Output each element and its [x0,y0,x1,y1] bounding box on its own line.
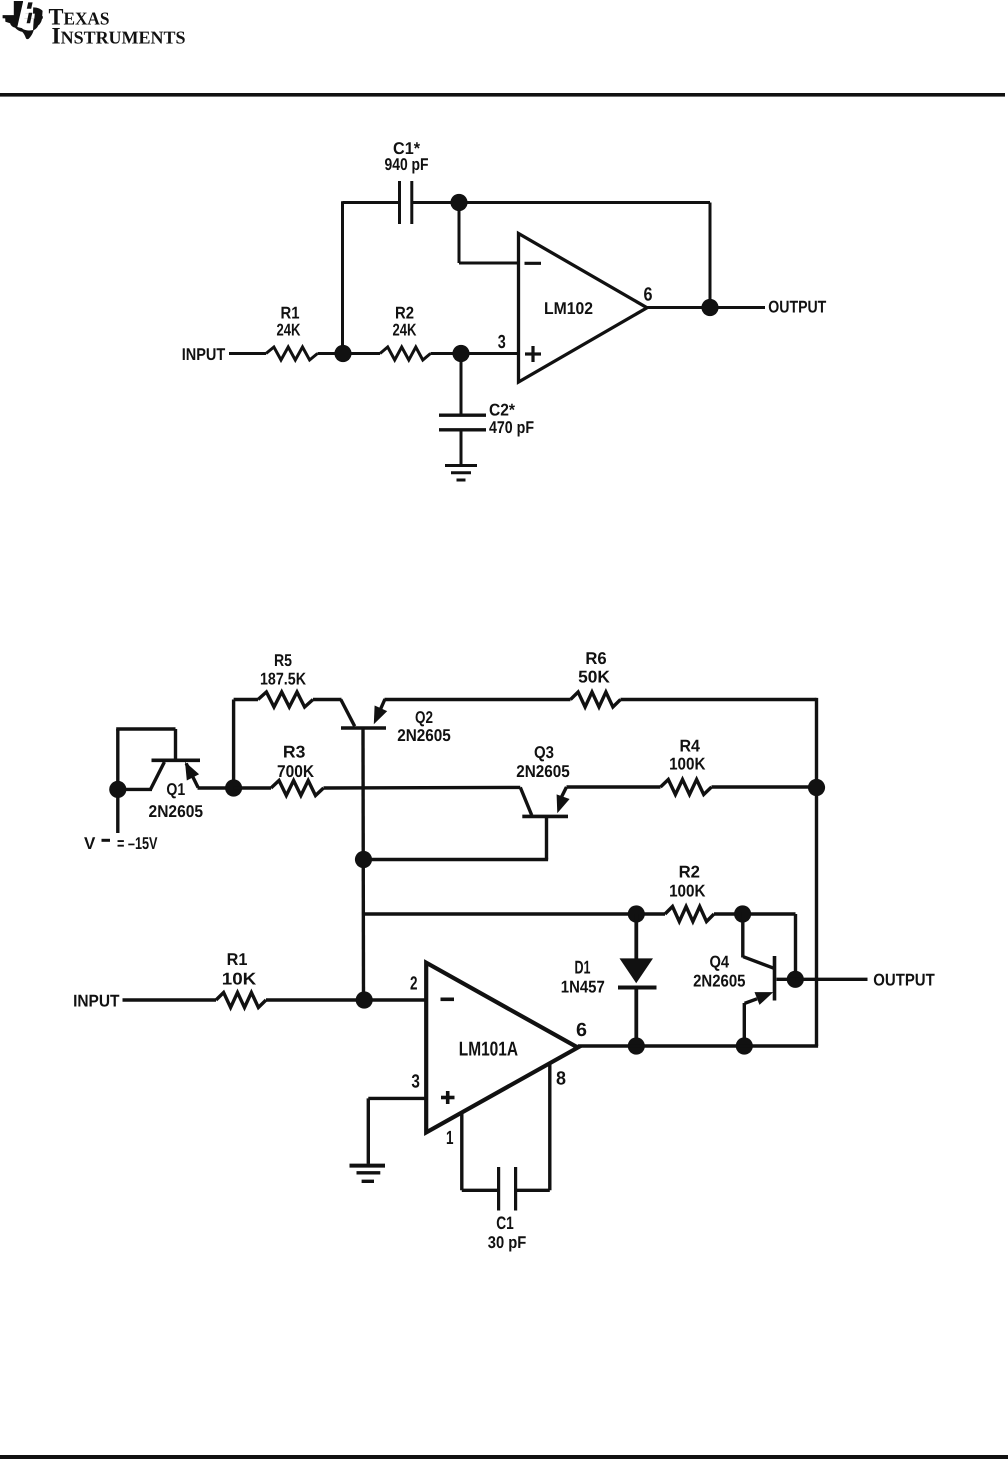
svg-text:100K: 100K [669,882,706,901]
svg-text:Q1: Q1 [166,780,185,799]
svg-text:2N2605: 2N2605 [693,972,745,991]
svg-text:INPUT: INPUT [182,345,226,364]
svg-text:V: V [84,834,96,853]
svg-text:24K: 24K [277,321,302,340]
svg-text:Q2: Q2 [415,708,433,727]
svg-text:3: 3 [411,1072,420,1093]
svg-text:1N457: 1N457 [561,978,605,997]
svg-text:470 pF: 470 pF [489,418,534,437]
svg-text:C1: C1 [496,1213,514,1233]
svg-text:24K: 24K [393,321,418,340]
svg-text:R6: R6 [585,649,606,668]
svg-text:6: 6 [576,1020,587,1041]
svg-text:INPUT: INPUT [73,992,120,1011]
svg-text:R5: R5 [274,651,292,670]
svg-text:R3: R3 [283,743,306,762]
svg-text:OUTPUT: OUTPUT [873,971,935,990]
svg-text:700K: 700K [277,762,315,781]
svg-text:C2*: C2* [489,401,515,420]
svg-text:INSTRUMENTS: INSTRUMENTS [52,24,186,50]
svg-text:1: 1 [446,1128,454,1149]
svg-text:8: 8 [556,1069,566,1090]
svg-text:6: 6 [644,285,653,306]
svg-text:10K: 10K [222,970,257,989]
svg-text:30 pF: 30 pF [488,1233,527,1252]
svg-text:R4: R4 [679,737,700,756]
svg-text:2N2605: 2N2605 [516,762,570,781]
svg-text:2N2605: 2N2605 [397,726,451,745]
svg-text:100K: 100K [669,755,706,774]
svg-text:LM101A: LM101A [459,1039,518,1061]
svg-text:Q3: Q3 [534,743,554,762]
svg-text:2: 2 [410,974,418,995]
svg-text:R1: R1 [227,950,248,969]
svg-text:OUTPUT: OUTPUT [768,298,827,317]
svg-text:2N2605: 2N2605 [149,802,204,821]
svg-text:= –15V: = –15V [117,834,158,853]
svg-text:LM102: LM102 [544,299,593,318]
svg-text:187.5K: 187.5K [260,670,307,689]
svg-text:Q4: Q4 [710,953,730,972]
svg-text:3: 3 [498,332,506,353]
svg-text:R2: R2 [679,863,700,882]
svg-text:50K: 50K [578,667,611,686]
svg-text:940 pF: 940 pF [385,155,429,174]
svg-text:D1: D1 [575,957,591,978]
